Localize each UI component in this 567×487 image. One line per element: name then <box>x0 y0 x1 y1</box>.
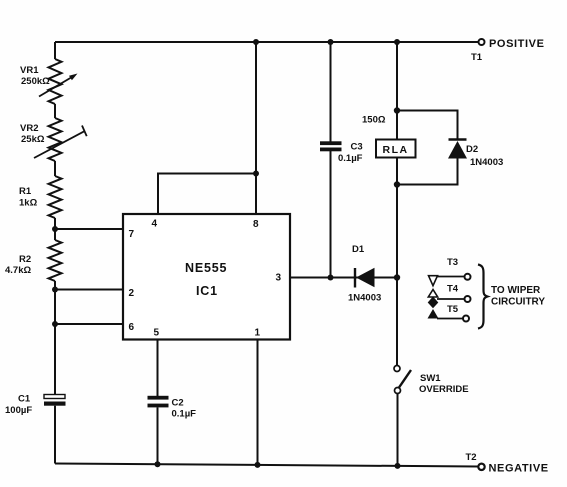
wire <box>157 407 159 464</box>
node junction top rail relay <box>394 39 400 45</box>
svg-text:RLA: RLA <box>383 144 409 156</box>
wire bottom rail <box>55 464 478 467</box>
wire to pin 6 <box>55 323 123 325</box>
switch SW1 OVERRIDE <box>394 366 469 396</box>
svg-text:VR1: VR1 <box>20 65 39 76</box>
svg-text:4.7kΩ: 4.7kΩ <box>5 265 31 276</box>
svg-text:CIRCUITRY: CIRCUITRY <box>491 297 545 308</box>
capacitor C1 100uF polarized <box>5 394 66 417</box>
wire D1 node down to switch <box>396 278 398 366</box>
wire <box>54 281 56 394</box>
svg-text:0.1µF: 0.1µF <box>338 153 363 164</box>
node junction pin6 <box>52 321 58 327</box>
terminal T3 <box>429 257 471 286</box>
svg-text:NE555: NE555 <box>185 261 227 275</box>
svg-text:VR2: VR2 <box>20 123 38 134</box>
wire <box>54 406 56 464</box>
terminal T1 <box>471 38 545 63</box>
svg-text:100µF: 100µF <box>5 405 32 416</box>
wire relay branch vertical <box>396 42 398 140</box>
svg-text:R1: R1 <box>19 186 32 197</box>
svg-text:NEGATIVE: NEGATIVE <box>489 463 549 475</box>
capacitor C2 0.1uF <box>148 396 197 420</box>
svg-text:T1: T1 <box>471 52 483 63</box>
svg-text:C2: C2 <box>172 398 184 409</box>
node junction C3 on pin3 wire <box>328 275 334 281</box>
svg-text:D1: D1 <box>352 244 365 255</box>
wire pin 1 down <box>257 340 259 466</box>
svg-text:1: 1 <box>255 328 261 339</box>
wire pin 5 down <box>157 340 159 397</box>
svg-text:T5: T5 <box>447 304 459 315</box>
svg-text:150Ω: 150Ω <box>362 115 386 126</box>
wire to pin 7 <box>55 228 123 230</box>
svg-text:8: 8 <box>253 219 259 230</box>
svg-text:7: 7 <box>129 229 135 240</box>
op-amp / timer IC1 NE555 box <box>123 214 290 340</box>
svg-text:5: 5 <box>154 328 160 339</box>
diode D2 1N4003 <box>448 140 503 169</box>
node junction on top rail <box>253 39 259 45</box>
wire relay to bottom junction <box>396 158 398 278</box>
node junction C2/rail <box>155 461 161 467</box>
svg-text:T4: T4 <box>447 284 459 295</box>
wire pin 4 stub <box>158 174 256 215</box>
svg-text:2: 2 <box>129 288 135 299</box>
svg-text:POSITIVE: POSITIVE <box>489 38 545 50</box>
svg-text:OVERRIDE: OVERRIDE <box>419 384 469 395</box>
svg-text:6: 6 <box>129 322 135 333</box>
svg-text:0.1µF: 0.1µF <box>172 409 197 420</box>
svg-text:C3: C3 <box>351 142 363 153</box>
node junction D1 / relay line <box>394 274 400 280</box>
svg-text:T3: T3 <box>447 257 458 268</box>
label TO WIPER CIRCUITRY <box>491 285 545 308</box>
svg-text:4: 4 <box>152 219 158 230</box>
wire switch to bottom rail <box>397 394 399 467</box>
node junction relay bottom <box>394 181 400 187</box>
svg-text:TO WIPER: TO WIPER <box>491 285 541 296</box>
wire top supply rail <box>55 41 478 43</box>
node junction switch/rail <box>395 463 401 469</box>
terminal T4 <box>428 284 471 309</box>
node junction pin4/pin8 <box>253 171 259 177</box>
svg-text:25kΩ: 25kΩ <box>21 134 45 145</box>
wire left vertical chain <box>54 42 56 59</box>
svg-text:C1: C1 <box>18 394 31 405</box>
wire <box>54 161 56 176</box>
relay coil RLA <box>376 140 416 158</box>
resistor R1 1k <box>19 176 62 218</box>
brace to wiper circuitry <box>478 265 488 329</box>
wire to pin 2 <box>55 289 123 291</box>
node junction relay top <box>394 107 400 113</box>
svg-text:3: 3 <box>276 273 282 284</box>
svg-text:1N4003: 1N4003 <box>470 157 503 168</box>
svg-text:1kΩ: 1kΩ <box>19 198 38 209</box>
node junction pin1/rail <box>255 462 261 468</box>
node junction pin2 <box>52 287 58 293</box>
svg-text:IC1: IC1 <box>196 284 218 298</box>
resistor R2 4.7k <box>5 240 62 281</box>
resistor VR2 25k preset <box>20 118 87 161</box>
wire pin 3 to D1 node <box>290 277 397 279</box>
wire <box>54 218 56 240</box>
node junction C3 top rail <box>328 39 334 45</box>
svg-text:250kΩ: 250kΩ <box>21 76 50 87</box>
terminal T2 <box>466 452 549 475</box>
svg-text:1N4003: 1N4003 <box>348 293 381 304</box>
svg-text:SW1: SW1 <box>420 373 441 384</box>
node junction pin7 <box>52 226 58 232</box>
svg-text:D2: D2 <box>466 144 478 155</box>
resistor VR1 250k <box>20 59 78 104</box>
wire D2 branch top <box>397 111 458 139</box>
wire pin 8 vertical to rail <box>255 42 257 214</box>
wire <box>54 104 56 118</box>
terminal T5 <box>428 304 470 322</box>
svg-text:R2: R2 <box>19 254 31 265</box>
svg-text:T2: T2 <box>466 452 477 463</box>
wire D2 branch bottom <box>397 159 458 185</box>
capacitor C3 0.1uF <box>320 141 363 164</box>
diode D1 1N4003 <box>348 244 381 304</box>
wire C3 vertical <box>330 42 332 142</box>
